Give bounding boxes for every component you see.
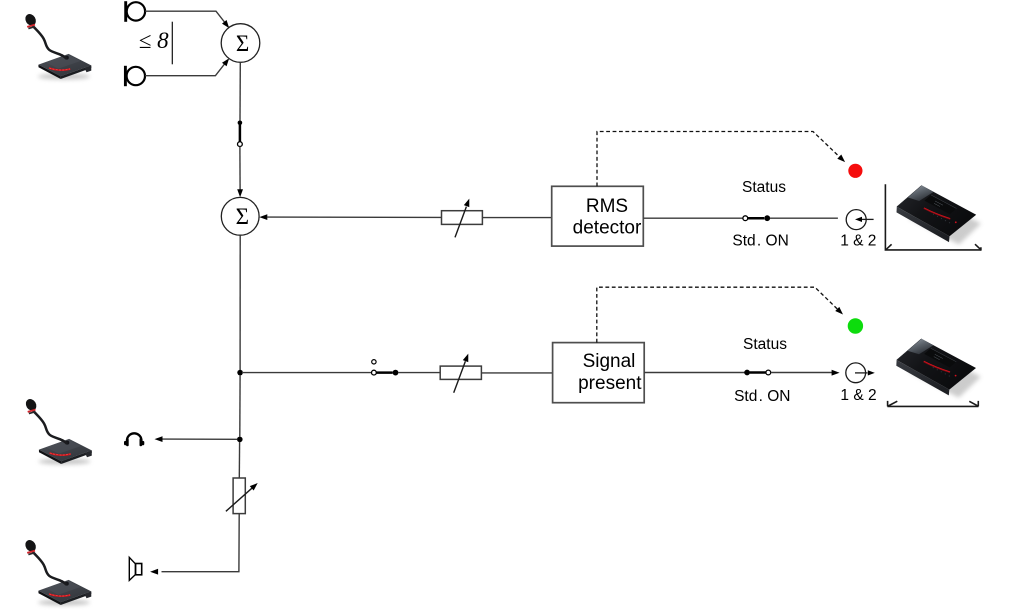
wire sum2 down to junction A bbox=[239, 235, 241, 370]
block Signal present bbox=[553, 343, 645, 403]
arrow into sum1 upper bbox=[222, 20, 231, 30]
svg-text:≤ 8: ≤ 8 bbox=[139, 28, 169, 53]
wire mic1 to sum1 bbox=[145, 11, 227, 25]
wire sum2 to attenuator R1 bbox=[267, 216, 442, 218]
summing node U1 bbox=[221, 24, 260, 63]
svg-text:Signal: Signal bbox=[583, 351, 636, 372]
mic photo bottom-left bbox=[23, 538, 91, 605]
wire sum1 down bbox=[239, 62, 241, 120]
switch S2 (Std. ON) bbox=[743, 215, 770, 221]
wire junction B to headphones arrow bbox=[162, 438, 237, 440]
wire R2 to Signal block bbox=[481, 372, 552, 374]
mic photo mid-left bbox=[24, 397, 92, 464]
LED red bbox=[848, 164, 862, 178]
arrow to headphones bbox=[155, 436, 163, 442]
svg-text:Status: Status bbox=[743, 336, 787, 353]
node circle 1&2 (RMS row) bbox=[846, 210, 873, 230]
wire Signal block to switch S4 bbox=[644, 372, 744, 374]
wire junction A to junction B bbox=[239, 375, 241, 437]
switch S1 (std ON) vertical bbox=[238, 121, 243, 147]
svg-text:1 & 2: 1 & 2 bbox=[840, 232, 876, 249]
switch S4 (Std. ON) bbox=[744, 370, 771, 376]
svg-text:Std . ON: Std . ON bbox=[732, 232, 788, 249]
microphone symbol M1 bbox=[126, 1, 145, 22]
dashed status line RMS bbox=[597, 132, 843, 187]
wire mic2 to sum1 bbox=[145, 62, 226, 76]
svg-text:present: present bbox=[578, 373, 642, 394]
dashed arrowhead Signal bbox=[835, 307, 845, 317]
wire R1 to RMS block bbox=[482, 217, 551, 219]
junction B bbox=[237, 437, 243, 443]
wire S3 to attenuator R2 bbox=[398, 372, 440, 374]
bracket bottom-right bbox=[887, 401, 978, 407]
dashed arrowhead RMS bbox=[837, 154, 847, 164]
junction A bbox=[237, 370, 243, 376]
svg-text:Σ: Σ bbox=[236, 31, 249, 56]
wire switch to sum2 bbox=[239, 147, 241, 191]
svg-text:detector: detector bbox=[573, 218, 642, 239]
svg-text:Σ: Σ bbox=[236, 204, 249, 229]
bracket top-right bbox=[885, 184, 981, 250]
microphone symbol M2 bbox=[125, 66, 145, 86]
wire junction A right bbox=[242, 372, 372, 374]
switch S3 (selector) bbox=[372, 360, 399, 376]
wire S2 right bbox=[770, 217, 838, 219]
wire RMS to switch S2 bbox=[643, 217, 743, 219]
svg-text:RMS: RMS bbox=[586, 196, 628, 217]
svg-text:1 & 2: 1 & 2 bbox=[840, 387, 876, 404]
arrow into sum1 lower bbox=[222, 56, 231, 66]
arrow into sum2 top bbox=[237, 189, 243, 197]
dashed status line Signal bbox=[597, 287, 841, 342]
LED green bbox=[848, 318, 863, 333]
mic photo top-left bbox=[23, 12, 91, 79]
wire R3 down and left to speaker bbox=[162, 514, 240, 572]
attenuator R1 (variable) bbox=[442, 198, 483, 238]
tally bar after 8 bbox=[171, 22, 173, 65]
arrow into sum2 right bbox=[259, 214, 267, 220]
headphones icon bbox=[124, 433, 144, 446]
arrow to loudspeaker bbox=[150, 569, 158, 575]
summing node U2 bbox=[221, 197, 259, 235]
loudspeaker icon bbox=[129, 557, 141, 580]
central unit photo top-right bbox=[897, 185, 982, 244]
wire junction B down to attenuator R3 bbox=[238, 442, 240, 478]
wire S4 right with arrow bbox=[771, 372, 832, 374]
central unit photo bottom-right bbox=[896, 339, 981, 398]
svg-text:Std . ON: Std . ON bbox=[734, 388, 790, 405]
attenuator R2 (variable) bbox=[440, 353, 481, 393]
node circle 1&2 (Signal row) bbox=[846, 363, 875, 383]
svg-text:Status: Status bbox=[742, 179, 786, 196]
attenuator R3 (variable, vertical) bbox=[226, 478, 260, 514]
block RMS detector bbox=[552, 186, 644, 246]
